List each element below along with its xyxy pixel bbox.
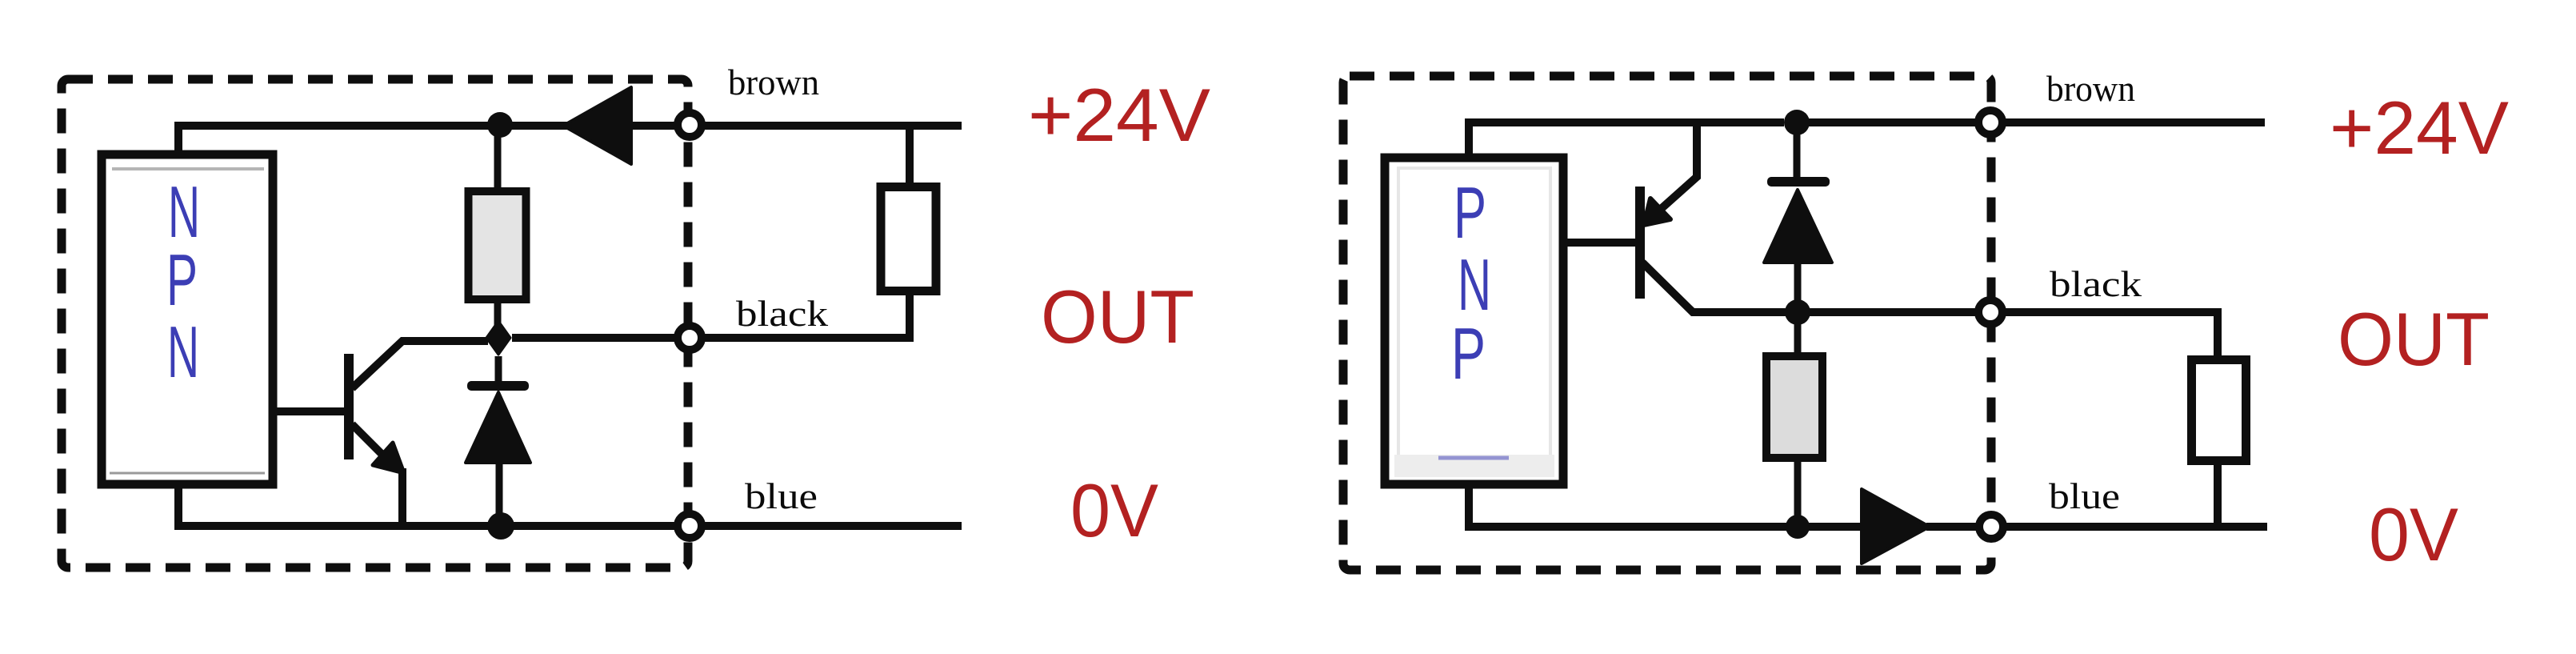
wire: +24V junction to brown terminal <box>1797 118 1978 126</box>
inner bottom shading line <box>110 472 265 475</box>
svg-text:brown: brown <box>2046 69 2135 109</box>
transistor Q2 base bar <box>1635 187 1645 299</box>
wire: black terminal to load resistor R2 <box>702 295 914 338</box>
svg-text:0V: 0V <box>2369 492 2458 576</box>
svg-text:P: P <box>1454 173 1486 254</box>
load resistor R2 (external, white) <box>881 187 936 291</box>
svg-text:OUT: OUT <box>2338 297 2490 381</box>
inner top shading line <box>112 167 264 171</box>
diode D1 triangle (pointing up) <box>466 392 530 463</box>
svg-text:N: N <box>167 312 199 393</box>
terminal brown PNP (circle) <box>1978 110 2002 134</box>
wire: NPN box bottom to 0V rail <box>178 484 676 526</box>
wire: NPN box top to +24V rail <box>178 126 480 154</box>
dashed sensor enclosure (NPN) <box>62 79 688 568</box>
diode D2 cathode bar <box>1767 177 1830 187</box>
terminal black (circle) <box>678 326 702 350</box>
transistor Q2 emitter wire from +24V rail <box>1660 122 1697 210</box>
wire: +24V rail junction to arrow <box>480 122 570 130</box>
svg-text:black: black <box>2050 264 2142 304</box>
wire: black terminal to load resistor R4 <box>2004 312 2222 355</box>
wire: PNP box bottom to 0V rail <box>1469 484 1864 527</box>
wire: PNP box top to +24V rail <box>1469 122 1784 157</box>
PNP sensor body box <box>1385 158 1563 484</box>
diode D2 triangle (pointing up) <box>1764 190 1832 263</box>
current arrow on +24V rail (pointing left) <box>563 87 631 164</box>
svg-text:P: P <box>166 240 198 321</box>
svg-text:0V: 0V <box>1070 468 1158 552</box>
resistor R3 (internal, grey) <box>1766 356 1822 458</box>
transistor Q2 collector to OUT rail <box>1642 263 1787 312</box>
transistor Q1 base bar <box>344 354 354 459</box>
wire: brown terminal to +24V label side <box>702 122 962 130</box>
wire: blue terminal to 0V label side <box>2005 523 2267 531</box>
resistor R1 (internal, grey) <box>469 191 526 299</box>
NPN sensor body box <box>102 154 273 484</box>
diode D1 cathode bar <box>467 381 529 391</box>
wire: diode D1 to 0V rail <box>496 463 503 526</box>
dashed sensor enclosure (PNP) <box>1343 76 1991 570</box>
OUT node diamond junction <box>486 321 510 355</box>
load resistor R4 (external, white) <box>2192 360 2246 461</box>
svg-text:black: black <box>736 294 829 334</box>
transistor Q1 emitter with arrow <box>352 424 386 458</box>
wire: brown terminal to +24V label side <box>2004 118 2265 126</box>
svg-text:+24V: +24V <box>1028 73 1210 157</box>
wire: OUT node to black terminal <box>512 334 676 342</box>
diode D2 wire from +24V junction <box>1794 122 1801 178</box>
wire: OUT node to black terminal (PNP) <box>1798 308 1978 316</box>
svg-text:brown: brown <box>728 62 819 102</box>
wire: arrow to brown terminal <box>629 122 676 130</box>
OUT junction node (PNP) <box>1785 299 1810 325</box>
svg-text:blue: blue <box>745 476 818 516</box>
transistor Q2 emitter arrowhead (pointing at base bar) <box>1644 199 1670 225</box>
svg-text:+24V: +24V <box>2330 86 2509 170</box>
wire: arrow to blue terminal <box>1926 523 1978 531</box>
terminal blue (circle) <box>678 514 702 538</box>
terminal black PNP (circle) <box>1978 300 2002 324</box>
wire: R4 bottom to 0V rail <box>2214 465 2222 527</box>
junction node on 0V rail (PNP) <box>1786 515 1810 539</box>
wire: OUT node down to resistor R3 <box>1794 312 1802 352</box>
svg-text:OUT: OUT <box>1041 275 1194 359</box>
wire: resistor R3 to 0V rail <box>1794 462 1802 527</box>
wire: diode D2 to OUT node <box>1794 263 1802 312</box>
terminal brown (circle) <box>678 113 702 137</box>
diode D1 wire from OUT node to bar <box>495 356 502 381</box>
transistor Q1 base wire from box <box>277 407 345 415</box>
terminal blue PNP (circle) <box>1979 515 2003 539</box>
wire: emitter down to 0V rail <box>398 468 406 526</box>
wire: resistor R1 to OUT node <box>494 303 502 338</box>
wire: blue terminal to 0V label side <box>702 522 962 530</box>
junction node on +24V rail <box>487 112 513 138</box>
transistor Q1 collector (to OUT node) <box>352 341 488 388</box>
junction node on +24V rail (PNP) <box>1784 110 1810 135</box>
svg-text:P: P <box>1451 314 1486 395</box>
junction node on 0V rail <box>487 512 514 540</box>
inner shading of PNP box <box>1398 168 1550 456</box>
svg-text:blue: blue <box>2049 476 2120 516</box>
wire: junction down to resistor R1 <box>494 126 502 192</box>
wire: R2 top to +24V rail <box>906 126 914 183</box>
transistor Q2 base wire from box <box>1563 239 1636 247</box>
current arrow on 0V rail (pointing right) <box>1862 489 1930 564</box>
